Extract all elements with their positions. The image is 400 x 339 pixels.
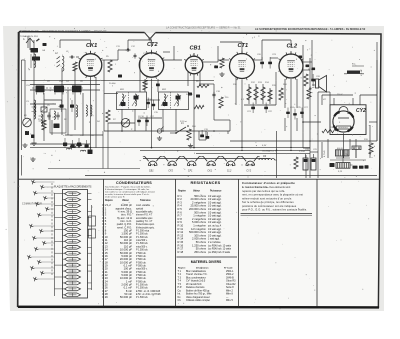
wire — [309, 58, 311, 178]
tube CK1 — [79, 43, 103, 78]
wire — [151, 40, 153, 47]
wire — [24, 60, 26, 118]
resistances header — [178, 191, 222, 196]
wire — [44, 99, 62, 101]
wire — [163, 59, 182, 61]
wire — [199, 139, 206, 141]
wire — [90, 77, 92, 148]
wire — [163, 51, 170, 53]
wire — [43, 93, 45, 141]
ground left of CT1 — [221, 72, 223, 74]
wire — [151, 51, 153, 54]
dark blob under coil pair — [88, 150, 93, 155]
svg-text:P 500 tub.: P 500 tub. — [136, 280, 147, 283]
svg-text:mica 500 v.: mica 500 v. — [136, 269, 148, 271]
svg-text:Repère: Repère — [105, 200, 114, 202]
coil pair right a — [86, 105, 87, 116]
wire — [303, 69, 310, 71]
svg-text:pour P.O., G.O. ou P.U., suiva: pour P.O., G.O. ou P.U., suivant les con… — [242, 208, 307, 212]
commutateur block rule — [241, 214, 313, 216]
svg-text:chauffage 6,3 V: chauffage 6,3 V — [262, 151, 277, 153]
IF transformer T1 — [117, 92, 147, 110]
wire — [61, 68, 63, 135]
wire — [213, 84, 215, 120]
capacitor C19 — [200, 130, 209, 139]
junction — [290, 147, 292, 149]
svg-text:et de service pour E.: et de service pour E. — [105, 196, 125, 199]
commutateur text block title — [242, 181, 295, 189]
plaquette row 9 — [55, 239, 81, 243]
svg-text:fil électrodes spéc.: fil électrodes spéc. — [136, 223, 155, 226]
wire — [90, 40, 92, 47]
caps row under CL2 c2 — [293, 109, 297, 120]
cap near CL2 top right — [299, 56, 303, 59]
condensateurs header row — [105, 200, 151, 205]
svg-text:4 Ω HP: 4 Ω HP — [361, 69, 363, 76]
plaquette row 13 — [55, 263, 92, 267]
cathode resistor CL2 — [279, 88, 283, 100]
wire — [248, 84, 250, 104]
switch contact 2 — [40, 185, 54, 189]
wire — [199, 72, 201, 86]
wire — [127, 40, 129, 50]
switch interrupteur — [176, 127, 186, 133]
svg-text:P 1.500 mica: P 1.500 mica — [136, 231, 150, 233]
wire — [162, 109, 164, 131]
svg-text:CK1: CK1 — [207, 170, 212, 173]
wire — [290, 52, 292, 55]
materiel divers rule — [177, 256, 238, 258]
tube CL2 — [278, 43, 303, 79]
svg-text:600 Ω: 600 Ω — [337, 148, 343, 150]
table zone top rule — [19, 178, 380, 180]
svg-text:RESISTANCES: RESISTANCES — [190, 181, 220, 185]
resistor right of CL2 — [304, 74, 308, 86]
svg-text:Ch.: Ch. — [178, 299, 182, 302]
svg-text:accordable spéc.: accordable spéc. — [136, 217, 153, 220]
plaquette row 10 — [63, 245, 92, 249]
svg-text:1/2 watt aggl.: 1/2 watt aggl. — [208, 221, 222, 224]
wire — [229, 120, 231, 131]
coil hump row b — [81, 150, 86, 151]
svg-text:Sur le schéma de principe, les: Sur le schéma de principe, les différent… — [242, 200, 294, 204]
svg-text:1/2 watt aggl.: 1/2 watt aggl. — [208, 234, 222, 237]
wire — [276, 131, 278, 178]
wire — [317, 92, 319, 160]
junction — [241, 150, 243, 152]
wire — [51, 120, 53, 135]
wire — [67, 90, 69, 135]
coil stack mid — [76, 105, 78, 117]
wire — [255, 84, 257, 104]
plaquette row 17 — [55, 287, 92, 291]
wire — [327, 139, 329, 158]
wire — [349, 139, 351, 150]
wire — [30, 147, 310, 149]
capacitor row C8 — [85, 140, 89, 148]
cap blob right of winding a — [353, 166, 358, 169]
resistor R13 — [254, 87, 258, 100]
wire — [95, 77, 97, 148]
wire to CY2 zone — [302, 45, 304, 70]
capacitor row C6 — [71, 140, 75, 148]
svg-text:P 1.500 tub.: P 1.500 tub. — [136, 236, 148, 239]
plaquette row 6 — [63, 222, 81, 226]
resistor bottom of speaker — [307, 88, 311, 99]
wire — [139, 60, 141, 92]
wire — [140, 117, 162, 119]
junction — [121, 130, 123, 132]
capacitor C15 — [152, 100, 156, 111]
wire — [205, 131, 207, 140]
switch contact 14 — [37, 260, 54, 264]
resistor R15 — [268, 90, 272, 101]
svg-text:P 500 tub.: P 500 tub. — [136, 274, 147, 277]
wire — [90, 148, 92, 152]
plaquette row 15 — [55, 275, 81, 279]
wire — [352, 98, 354, 105]
cathode cap CT2 — [156, 84, 160, 87]
wire — [290, 79, 292, 148]
svg-text:1/2 watt aggl.: 1/2 watt aggl. — [208, 198, 222, 201]
capacitor C14 — [146, 98, 150, 109]
svg-text:TONALITE N. 318: TONALITE N. 318 — [20, 35, 38, 38]
wire — [108, 122, 135, 124]
junction — [241, 147, 243, 149]
dark cap under CB1 a — [188, 93, 192, 96]
plaquette row 3 — [55, 204, 81, 208]
table separator vertical 2 — [175, 179, 177, 306]
PU jack circle — [157, 127, 164, 141]
grid caps CT1 — [260, 57, 264, 69]
resistor R10 — [187, 129, 191, 140]
svg-text:20.000: 20.000 — [109, 83, 116, 85]
wire — [261, 44, 263, 60]
wire — [296, 79, 298, 108]
capacitor CA1 — [48, 112, 50, 115]
switch contact 4 — [43, 196, 54, 200]
wire — [318, 91, 330, 93]
loudspeaker — [312, 76, 327, 93]
svg-text:Valeur: Valeur — [193, 191, 200, 193]
svg-text:pot. au log. A: pot. au log. A — [208, 225, 222, 228]
fuse under CY2 — [352, 146, 361, 150]
svg-text:1/2 watt aggl.: 1/2 watt aggl. — [208, 205, 222, 208]
wire — [321, 142, 323, 158]
svg-text:positions du commutateur ont é: positions du commutateur ont été indiqué… — [242, 204, 297, 208]
svg-text:4,7 kΩ: 4,7 kΩ — [324, 150, 326, 157]
plaquette row 14 — [63, 269, 92, 273]
wire — [241, 42, 243, 51]
wire — [21, 155, 23, 176]
filament socket CK1 — [201, 156, 220, 172]
wire — [151, 79, 153, 148]
capacitor CA2 — [57, 112, 59, 115]
wire — [187, 72, 189, 86]
resistor AVC mid — [219, 97, 223, 108]
svg-text:Châssis câblé complet: Châssis câblé complet — [186, 299, 210, 302]
svg-text:1/2 watt aggl.: 1/2 watt aggl. — [208, 218, 222, 221]
wire — [230, 140, 377, 142]
wire — [270, 57, 278, 59]
svg-text:8 mF: 8 mF — [310, 87, 315, 89]
wire — [262, 39, 291, 41]
wire — [121, 109, 123, 131]
trimmer cluster 2 — [41, 107, 47, 112]
svg-text:Sauf indication : P papier, mi: Sauf indication : P papier, mica isolé d… — [105, 185, 151, 188]
wire — [343, 150, 345, 158]
cap C22 — [264, 103, 268, 114]
svg-text:P 1.500 tub.: P 1.500 tub. — [136, 287, 148, 290]
wire — [30, 143, 90, 145]
wire — [218, 59, 229, 61]
wire — [284, 118, 286, 131]
wire — [220, 41, 242, 43]
materiel divers rows — [178, 270, 237, 302]
junction — [276, 150, 278, 152]
svg-text:P 500 tub.: P 500 tub. — [136, 258, 147, 261]
wire — [311, 40, 313, 62]
wire — [76, 56, 79, 58]
resistor R3 horizontal — [70, 144, 82, 147]
switch contact 11 — [42, 241, 54, 245]
switch contact 13 — [27, 255, 54, 259]
dark cap left of CT2 — [118, 75, 122, 78]
capacitor row C5 — [63, 138, 67, 148]
tapped coil left — [39, 114, 44, 126]
wire — [102, 59, 118, 61]
svg-text:P 1.500 tub.: P 1.500 tub. — [136, 249, 148, 252]
wire — [140, 149, 310, 151]
filament socket CY2 — [240, 156, 259, 172]
svg-text:CT2: CT2 — [147, 42, 158, 48]
ballast coil RS — [259, 156, 277, 160]
switch contact 16 — [40, 271, 54, 275]
svg-text:R 18: R 18 — [178, 250, 184, 254]
wire — [22, 79, 215, 81]
wire — [144, 79, 146, 92]
svg-text:rent, en correspondance avec l: rent, en correspondance avec la plaquett… — [242, 193, 303, 197]
svg-text:1/2 watt aggl.: 1/2 watt aggl. — [208, 215, 222, 218]
wire — [355, 139, 357, 158]
plaquette row 7 — [55, 228, 92, 232]
cap at CT2 grid — [125, 49, 127, 51]
ferrite core component 2 — [32, 57, 40, 61]
plaquette row 16 — [63, 281, 92, 285]
wire — [118, 49, 130, 51]
wire — [329, 92, 331, 105]
wire — [302, 70, 304, 148]
wire — [290, 40, 292, 48]
tube CY2 — [333, 107, 366, 140]
switch contact 10 — [32, 236, 54, 240]
resistor near CK1 — [73, 62, 77, 71]
wire — [30, 103, 56, 105]
wire — [311, 62, 313, 80]
ground under R10 — [190, 144, 192, 146]
svg-text:padding T.C. 4 T: padding T.C. 4 T — [136, 221, 153, 223]
svg-text:(ou RS4) bob. 12 watts: (ou RS4) bob. 12 watts — [208, 248, 232, 251]
svg-text:1/2 watt aggl.: 1/2 watt aggl. — [208, 195, 222, 198]
svg-text:LA CONSTRUCTION DES RECEPTEURS: LA CONSTRUCTION DES RECEPTEURS — SERIE R… — [166, 25, 241, 29]
wire — [175, 109, 177, 131]
svg-text:P 500 tub.: P 500 tub. — [136, 261, 147, 264]
wire — [275, 80, 277, 105]
resistor after detector — [194, 105, 204, 108]
volume potentiometer — [121, 119, 130, 128]
wire — [269, 88, 271, 104]
wire — [275, 72, 277, 80]
wire — [214, 119, 230, 121]
switch dashed shaft — [51, 183, 53, 276]
switch contact 8 — [29, 224, 54, 228]
svg-text:P 500 tub.: P 500 tub. — [136, 271, 147, 274]
cap under CB1 — [213, 92, 215, 95]
plaquette row 2 — [63, 198, 92, 202]
small mark antenna right — [43, 43, 47, 46]
antenna — [26, 38, 34, 50]
junction — [90, 147, 92, 149]
cathode resistor CT2 — [143, 80, 147, 90]
grid capacitor CK1 — [69, 56, 71, 58]
electrolytic capacitor 1 — [303, 154, 308, 170]
switch contact 7 — [37, 213, 54, 217]
tube CT2 — [139, 42, 164, 79]
padding coil left — [34, 100, 36, 116]
junction — [162, 130, 164, 132]
oscillator coil L2 — [55, 52, 64, 71]
svg-text:(ou RS4) bob. 12 watts: (ou RS4) bob. 12 watts — [208, 244, 232, 247]
wire — [74, 68, 76, 130]
svg-text:MATERIEL DIVERS: MATERIEL DIVERS — [191, 260, 222, 264]
wire — [317, 160, 319, 178]
wire — [359, 95, 361, 105]
svg-text:250 ohms: 250 ohms — [194, 250, 206, 254]
junction — [302, 121, 304, 123]
wire — [296, 118, 298, 131]
svg-text:CY2: CY2 — [246, 170, 251, 173]
dark cap pair mid b — [70, 100, 74, 112]
svg-text:même-endroit sont entourés d'u: même-endroit sont entourés d'un cercle. — [242, 196, 292, 200]
svg-text:1 watt aggl.: 1 watt aggl. — [208, 238, 220, 241]
resistor R14 — [261, 87, 265, 100]
wire — [227, 131, 229, 134]
rectifier tube CY2 box — [330, 105, 366, 135]
svg-text:RS: RS — [263, 156, 267, 158]
caps row under CL2 c1 — [286, 108, 290, 119]
svg-text:2 w. bobinée: 2 w. bobinée — [208, 242, 221, 244]
wire — [103, 60, 105, 131]
resistor 4,7k vertical right — [294, 151, 306, 169]
wire — [303, 147, 310, 149]
wire — [134, 109, 136, 131]
svg-text:P 1.500 tub.: P 1.500 tub. — [136, 283, 148, 286]
cap blob right of winding b — [359, 166, 364, 169]
dark mark left 1 — [25, 131, 29, 135]
svg-text:Tolérance: Tolérance — [140, 200, 151, 202]
wire — [244, 104, 276, 106]
svg-text:PLAQUETTE à RACCORDEMENTS: PLAQUETTE à RACCORDEMENTS — [54, 186, 92, 189]
wire — [27, 36, 29, 48]
plaquette side box 1 — [89, 216, 96, 226]
svg-text:CY2: CY2 — [356, 108, 366, 114]
svg-text:fil électrodes spéc.: fil électrodes spéc. — [136, 226, 155, 229]
wire — [104, 130, 230, 132]
power transformer windings — [330, 148, 366, 173]
coil pair right b — [91, 105, 92, 116]
wire — [254, 59, 262, 61]
svg-text:P 500 tub.: P 500 tub. — [136, 277, 147, 280]
svg-text:Mfre 5: Mfre 5 — [226, 299, 233, 302]
svg-text:CT1: CT1 — [238, 43, 249, 49]
svg-text:CF2: CF2 — [168, 170, 173, 173]
svg-text:(ou RS4) bob. fil watts: (ou RS4) bob. fil watts — [208, 251, 231, 254]
wire — [59, 40, 61, 48]
wire — [303, 121, 321, 123]
svg-text:cond. variable: cond. variable — [136, 204, 151, 207]
svg-text:mica 500 v.: mica 500 v. — [136, 240, 148, 242]
wire — [262, 84, 264, 104]
coupling cap CT1-CL2 — [268, 57, 272, 69]
resistor ladder left of CT2 — [108, 60, 112, 72]
resistances rows — [178, 194, 232, 254]
plaquette row 18 — [63, 293, 81, 297]
wire — [146, 99, 160, 101]
wire — [65, 134, 103, 136]
wire — [321, 95, 323, 105]
switch contact 9 — [39, 229, 54, 233]
cap cluster speaker b — [312, 68, 316, 71]
svg-text:repérés par des lettres qui se: repérés par des lettres qui se réfè- — [242, 189, 285, 193]
dark cap under CB1 b — [196, 95, 200, 98]
junction — [309, 140, 311, 142]
wire — [203, 61, 218, 63]
cap left of CT1 — [214, 66, 218, 69]
ground left 3 — [32, 157, 34, 159]
wire — [235, 77, 237, 105]
svg-text:CL2: CL2 — [227, 170, 232, 173]
svg-text:Puissance: Puissance — [210, 191, 222, 193]
filament socket CF2 — [162, 156, 181, 172]
svg-text:Repère: Repère — [178, 191, 187, 193]
svg-text:1/2 watt aggl.: 1/2 watt aggl. — [208, 228, 222, 231]
caps row under CL2 c3 — [300, 108, 304, 119]
wire — [157, 79, 159, 92]
svg-text:spécial: spécial — [136, 208, 144, 210]
wire — [355, 150, 357, 158]
tuning gang dashed link — [32, 87, 84, 89]
svg-text:P 1.500 tub.: P 1.500 tub. — [136, 296, 148, 299]
svg-text:mica 500 v.: mica 500 v. — [136, 246, 148, 248]
plaquette row 1 — [55, 192, 92, 196]
wire — [117, 50, 119, 60]
resistor R12 — [247, 87, 251, 100]
dark cap pair mid a — [60, 100, 64, 112]
switch contact 12 — [34, 247, 54, 251]
wire v108 — [107, 123, 109, 169]
svg-text:50.000: 50.000 — [186, 94, 193, 96]
wire — [360, 94, 377, 96]
component value labels — [24, 46, 369, 156]
svg-text:C 29: C 29 — [102, 295, 108, 299]
wire v103 — [102, 131, 104, 169]
cap 130 — [134, 53, 136, 55]
commutateur text block body — [242, 185, 307, 212]
dark mark left 2 — [31, 135, 35, 139]
wire — [261, 40, 263, 44]
table separator vertical 3 — [238, 179, 240, 306]
table separator vertical 4 — [316, 179, 318, 306]
